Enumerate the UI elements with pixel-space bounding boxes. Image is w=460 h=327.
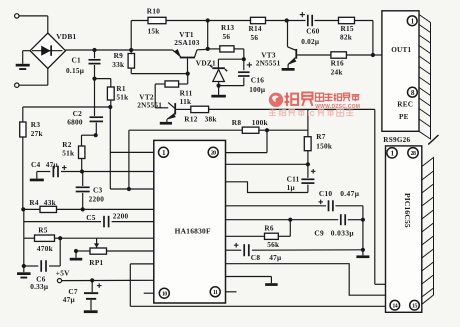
- label 38k: [205, 114, 218, 123]
- label 470k: [37, 244, 54, 253]
- node T: [306, 162, 310, 166]
- label C16: [251, 76, 264, 85]
- wire: [287, 21, 289, 47]
- terminal +5V: [56, 269, 70, 283]
- svg-text:C16: C16: [251, 76, 264, 85]
- label REC: [397, 101, 413, 109]
- node W: [361, 248, 365, 252]
- bridge rectifier VDB1: [30, 33, 65, 69]
- node G: [206, 47, 210, 51]
- label R9: [114, 51, 124, 60]
- wire: [375, 109, 386, 284]
- svg-text:R7: R7: [316, 132, 326, 141]
- resistor R10: [131, 17, 208, 23]
- resistor R11: [155, 74, 188, 88]
- label 100k (R8): [252, 118, 269, 127]
- pin 1 (CN1): [407, 16, 417, 26]
- capacitor C60: [287, 15, 339, 27]
- svg-text:56k: 56k: [267, 240, 280, 249]
- label VDB1: [56, 32, 76, 41]
- node R: [90, 278, 94, 282]
- svg-text:15k: 15k: [148, 28, 161, 36]
- pin 15 (U2): [410, 300, 420, 310]
- label 47u (C8): [269, 253, 282, 262]
- label 56 (R13): [223, 33, 231, 41]
- resistor R3: [20, 107, 26, 209]
- svg-text:100μ: 100μ: [249, 86, 266, 94]
- wire (jog to row5): [110, 188, 154, 190]
- label PE: [399, 113, 409, 121]
- svg-text:2N5551: 2N5551: [137, 102, 162, 110]
- node P: [22, 264, 26, 268]
- wire: [94, 79, 96, 116]
- wire (pin1 row): [110, 107, 154, 189]
- node (R9/R10 tap): [129, 48, 133, 52]
- svg-text:C6: C6: [36, 274, 46, 283]
- svg-text:56: 56: [223, 33, 231, 41]
- label R12: [184, 114, 197, 123]
- label 24k: [331, 69, 344, 77]
- polarity + (C4): [62, 165, 67, 170]
- hatch face (U2): [422, 158, 434, 305]
- label VDZ1: [196, 58, 216, 67]
- svg-text:R1: R1: [116, 84, 126, 93]
- wire: [129, 129, 242, 131]
- label HA16830F: [175, 226, 211, 235]
- pin 8 (CN1): [408, 87, 418, 97]
- node J: [371, 53, 375, 57]
- svg-text:20: 20: [211, 150, 216, 156]
- svg-text:10: 10: [162, 291, 167, 297]
- svg-text:PIC16C55: PIC16C55: [403, 193, 412, 228]
- wire: [219, 85, 244, 87]
- node A: [92, 77, 96, 81]
- svg-text:R10: R10: [147, 7, 160, 16]
- wire (gnd rail): [130, 264, 385, 306]
- label 11k: [180, 97, 192, 106]
- wire: [82, 171, 154, 173]
- svg-text:RP1: RP1: [89, 258, 103, 267]
- label VT2: [139, 93, 154, 102]
- svg-text:IC: IC: [308, 111, 316, 118]
- wire: [362, 206, 364, 220]
- svg-text:R9: R9: [114, 51, 124, 60]
- wire: [207, 21, 209, 49]
- label C2: [73, 109, 83, 118]
- transistor VT2: [160, 103, 176, 125]
- capacitor C7: [84, 280, 98, 313]
- svg-text:C4: C4: [31, 160, 41, 169]
- svg-text:REC: REC: [397, 101, 413, 109]
- node O: [58, 236, 62, 240]
- label 0.033u: [331, 229, 355, 238]
- node Q: [74, 249, 78, 253]
- svg-text:C1: C1: [72, 56, 82, 65]
- svg-text:VDB1: VDB1: [56, 32, 76, 41]
- node U: [288, 218, 292, 222]
- node L: [127, 187, 131, 191]
- resistor R9: [128, 50, 134, 74]
- capacitor C4: [37, 166, 82, 178]
- resistor R13: [208, 46, 244, 59]
- resistor R6: [226, 220, 291, 240]
- capacitor C8: [226, 244, 363, 256]
- label R3: [31, 120, 41, 129]
- capacitor C1: [89, 50, 101, 79]
- wire: [267, 129, 308, 131]
- polarity + (C11): [311, 169, 316, 174]
- resistor R4: [23, 206, 154, 212]
- node H: [242, 57, 246, 61]
- watermark logo: [269, 93, 283, 107]
- svg-text:38k: 38k: [205, 114, 218, 123]
- svg-text:VT2: VT2: [139, 93, 154, 102]
- svg-text:470k: 470k: [37, 244, 54, 253]
- wire: [66, 49, 173, 51]
- label 100u: [249, 86, 266, 94]
- svg-text:100k: 100k: [252, 118, 269, 127]
- transistor VT1: [173, 49, 208, 74]
- node F (VT1 base): [186, 72, 190, 76]
- capacitor C2: [90, 116, 104, 135]
- resistor R2: [79, 135, 85, 171]
- label 2200 (C3): [89, 196, 105, 204]
- svg-text:0.47μ: 0.47μ: [340, 189, 360, 198]
- svg-text:51k: 51k: [116, 93, 129, 101]
- svg-text:11k: 11k: [180, 97, 192, 106]
- zener VDZ1: [210, 59, 227, 85]
- svg-text:R15: R15: [341, 24, 354, 33]
- svg-text:VT3: VT3: [261, 50, 276, 59]
- resistor R12: [176, 106, 209, 112]
- capacitor C10: [226, 200, 363, 211]
- node M: [21, 207, 25, 211]
- ground (C6): [17, 266, 31, 278]
- wire: [226, 264, 386, 296]
- node K: [80, 169, 84, 173]
- ground (RP1): [70, 251, 83, 261]
- svg-text:C60: C60: [306, 26, 319, 35]
- ground (VDZ1): [211, 86, 226, 98]
- svg-text:47μ: 47μ: [63, 296, 76, 304]
- node E: [285, 18, 289, 22]
- node N: [81, 207, 85, 211]
- label 0.33u: [30, 283, 49, 291]
- label R1: [116, 84, 126, 93]
- label C5: [86, 213, 96, 222]
- label 56k: [267, 240, 280, 249]
- wire: [62, 279, 154, 281]
- resistor R15: [339, 17, 373, 23]
- resistor R14: [251, 17, 287, 23]
- wire (R11 wrap): [155, 84, 168, 108]
- label 47u (C7): [63, 296, 76, 304]
- resistor R16: [297, 52, 373, 58]
- label 27k: [31, 130, 44, 138]
- label PIC16C55: [403, 193, 412, 228]
- label 2SA103: [174, 39, 199, 47]
- wire: [19, 16, 48, 34]
- svg-text:R3: R3: [31, 120, 41, 129]
- label VT3: [261, 50, 276, 59]
- label R15: [341, 24, 354, 33]
- svg-text:OUT1: OUT1: [391, 46, 411, 54]
- svg-text:R4: R4: [29, 198, 39, 207]
- connector U2 PIC16C55: [386, 146, 422, 312]
- svg-text:24k: 24k: [331, 69, 344, 77]
- svg-text:28: 28: [411, 151, 416, 157]
- wire: [218, 58, 243, 60]
- svg-text:C8: C8: [251, 253, 261, 262]
- svg-text:C7: C7: [68, 287, 78, 296]
- svg-text:C11: C11: [287, 175, 300, 184]
- label R7: [316, 132, 326, 141]
- svg-text:11: 11: [213, 290, 218, 296]
- label RS9G26: [383, 136, 410, 144]
- watermark slogan: [269, 109, 353, 118]
- svg-text:82k: 82k: [340, 34, 353, 42]
- svg-text:2200: 2200: [89, 196, 105, 204]
- pin 11: [210, 287, 220, 297]
- label R8: [232, 118, 242, 127]
- svg-text:0.033μ: 0.033μ: [331, 229, 355, 238]
- wire: [373, 54, 382, 56]
- label 51k (R2): [62, 149, 75, 157]
- label 2N5551 (VT2): [137, 102, 162, 110]
- label R16: [331, 59, 344, 68]
- label VT1: [179, 30, 194, 39]
- svg-text:VT1: VT1: [179, 30, 194, 39]
- label 6800: [67, 119, 83, 127]
- label C60: [306, 26, 319, 35]
- wire: [60, 237, 154, 239]
- pin 20: [208, 147, 218, 157]
- pin 1: [159, 147, 169, 157]
- node B: [108, 105, 112, 109]
- label 2200 (C5): [113, 212, 129, 221]
- capacitor C5: [24, 216, 154, 228]
- wire (C11 return): [226, 182, 308, 193]
- node S: [265, 128, 269, 132]
- input terminal J2: [15, 83, 19, 87]
- capacitor C9: [340, 214, 363, 225]
- wire: [24, 238, 60, 266]
- break mark: [428, 135, 438, 145]
- polarity + (C16): [247, 62, 252, 67]
- wire (top rail riser): [130, 21, 132, 51]
- svg-text:C3: C3: [93, 185, 103, 194]
- watermark text: [285, 93, 361, 110]
- wire (R8 riser): [128, 130, 130, 189]
- ground (C8/C9): [356, 250, 369, 258]
- node C: [94, 133, 98, 137]
- capacitor C6: [24, 260, 60, 272]
- resistor R5: [24, 235, 60, 241]
- svg-text:6800: 6800: [67, 119, 83, 127]
- label C6: [36, 274, 46, 283]
- connector CN1 (RS9G26): [382, 11, 419, 132]
- ground (bridge): [16, 51, 30, 70]
- svg-text:2200: 2200: [113, 212, 129, 221]
- label 0.15u: [66, 67, 85, 75]
- polarity + (C8): [234, 243, 239, 248]
- node I: [217, 84, 221, 88]
- label C11: [287, 175, 300, 184]
- wire: [362, 220, 364, 250]
- svg-text:14: 14: [392, 303, 397, 309]
- svg-text:R2: R2: [62, 140, 72, 149]
- wire (R12 long): [209, 108, 375, 110]
- svg-text:C10: C10: [319, 189, 333, 198]
- svg-text:C9: C9: [314, 229, 324, 238]
- svg-text:2N5551: 2N5551: [256, 60, 281, 68]
- svg-text:15: 15: [412, 303, 417, 309]
- wire: [131, 73, 188, 75]
- node V: [361, 218, 365, 222]
- label R13: [221, 23, 234, 32]
- pin 10: [159, 288, 169, 298]
- label 0.02u: [301, 38, 320, 46]
- label C10: [319, 189, 333, 198]
- svg-text:0.15μ: 0.15μ: [66, 67, 85, 75]
- polarity + (C60): [300, 12, 305, 17]
- label 43k: [44, 198, 57, 207]
- label C4: [31, 160, 41, 169]
- label R14: [249, 24, 262, 33]
- pin 14 (U2): [390, 300, 400, 310]
- svg-text:27k: 27k: [31, 130, 44, 138]
- label 51k: [116, 93, 129, 101]
- polarity + (C7): [97, 283, 102, 288]
- label R4: [29, 198, 39, 207]
- wire: [23, 209, 25, 238]
- label C9: [314, 229, 324, 238]
- label R5: [38, 226, 48, 235]
- capacitor C16: [238, 59, 250, 85]
- svg-text:PE: PE: [399, 113, 409, 121]
- svg-text:0.02μ: 0.02μ: [301, 38, 320, 46]
- label RP1: [89, 258, 103, 267]
- svg-text:RS9G26: RS9G26: [383, 136, 410, 144]
- label C8: [251, 253, 261, 262]
- wire: [208, 20, 251, 22]
- svg-text:+5V: +5V: [56, 269, 70, 278]
- label 56 (R14): [251, 34, 259, 42]
- svg-text:150k: 150k: [316, 142, 333, 150]
- svg-text:R8: R8: [232, 118, 242, 127]
- hatch face (CN1): [419, 15, 431, 140]
- resistor R8: [242, 127, 267, 133]
- svg-text:R13: R13: [221, 23, 234, 32]
- resistor R7: [304, 109, 311, 164]
- label C1: [72, 56, 82, 65]
- svg-text:47μ: 47μ: [269, 253, 282, 262]
- svg-text:47μ: 47μ: [46, 161, 59, 169]
- svg-text:VDZ1: VDZ1: [196, 58, 216, 67]
- label R6: [264, 224, 274, 233]
- label 47u (C4): [46, 161, 59, 169]
- label R11: [180, 89, 193, 98]
- input terminal J1: [15, 14, 19, 18]
- pin 1 (U2): [387, 148, 397, 158]
- svg-text:2SA103: 2SA103: [174, 39, 199, 47]
- svg-text:56: 56: [251, 34, 259, 42]
- svg-text:43k: 43k: [44, 198, 57, 207]
- node D: [206, 18, 210, 22]
- capacitor C11: [301, 164, 314, 192]
- svg-text:1μ: 1μ: [287, 184, 296, 192]
- capacitor C3: [76, 172, 90, 210]
- wire: [372, 21, 374, 56]
- label 82k: [340, 34, 353, 42]
- label C3: [93, 185, 103, 194]
- label 0.47u: [340, 189, 360, 198]
- polarity + (C10): [318, 200, 323, 205]
- wire (pin11 stub): [226, 291, 237, 293]
- node (C1 tap): [92, 48, 96, 52]
- svg-text:51k: 51k: [62, 149, 75, 157]
- potentiometer RP1: [76, 238, 154, 254]
- ground (IC right): [226, 277, 278, 286]
- label R10: [147, 7, 160, 16]
- svg-text:C5: C5: [86, 213, 96, 222]
- label R2: [62, 140, 72, 149]
- label 2N5551 (VT3): [256, 60, 281, 68]
- pin 28 (U2): [408, 148, 418, 158]
- svg-text:R6: R6: [264, 224, 274, 233]
- wire: [95, 78, 111, 80]
- svg-text:R5: R5: [38, 226, 48, 235]
- wire: [226, 163, 308, 165]
- svg-text:R14: R14: [249, 24, 262, 33]
- svg-text:33k: 33k: [112, 61, 125, 69]
- svg-text:C2: C2: [73, 109, 83, 118]
- label 15k: [148, 28, 161, 36]
- wire: [82, 134, 96, 136]
- resistor R1: [107, 79, 114, 107]
- svg-text:HA16830F: HA16830F: [175, 226, 211, 235]
- IC U1 HA16830F: [154, 140, 226, 303]
- label 1u: [287, 184, 296, 192]
- svg-text:R12: R12: [184, 114, 197, 123]
- svg-text:0.33μ: 0.33μ: [30, 283, 49, 291]
- wire: [19, 68, 48, 85]
- label 150k: [316, 142, 333, 150]
- label 33k: [112, 61, 125, 69]
- wire: [226, 130, 268, 152]
- wire: [226, 219, 339, 221]
- svg-text:R16: R16: [331, 59, 344, 68]
- label OUT1: [391, 46, 411, 54]
- wire (pin10 stub): [144, 292, 154, 294]
- wire: [23, 106, 111, 108]
- ground (C4): [30, 172, 44, 182]
- label C7: [68, 287, 78, 296]
- transistor VT3: [282, 47, 298, 71]
